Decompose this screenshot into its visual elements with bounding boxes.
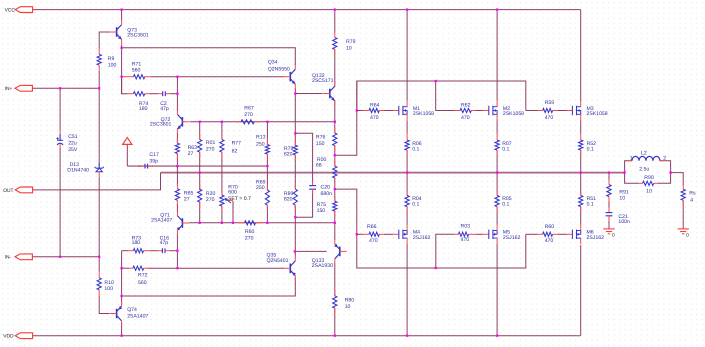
wire power arrow stem <box>126 144 128 166</box>
svg-text:R77: R77 <box>232 140 242 146</box>
wire R51 to M6 drain <box>580 207 582 225</box>
wire feedback line <box>127 165 267 167</box>
wire C16 row corner <box>122 250 129 252</box>
junction at (407.1,9.6) <box>406 8 408 10</box>
junction at (199.7,222.8) <box>199 222 201 224</box>
wire Q72 base row <box>190 121 335 123</box>
svg-text:270: 270 <box>206 197 215 203</box>
svg-text:VCC: VCC <box>5 8 16 14</box>
resistor R73 <box>128 235 150 252</box>
resistor R75 <box>317 196 337 216</box>
junction at (60.1,88.3) <box>59 87 61 89</box>
svg-text:0.1: 0.1 <box>502 202 509 208</box>
svg-text:2SJ162: 2SJ162 <box>413 235 431 241</box>
wire R13 top <box>266 122 268 145</box>
svg-text:SET = 0.7: SET = 0.7 <box>228 196 251 202</box>
junction at (295.3,93.5) <box>294 92 296 94</box>
junction at (334.8,189.1) <box>334 188 336 190</box>
svg-text:R66: R66 <box>367 224 377 230</box>
port IN+ <box>15 85 32 91</box>
wire pot wiper drop <box>232 201 234 223</box>
svg-text:0.1: 0.1 <box>412 202 419 208</box>
capacitor C51 22u 25V <box>57 131 78 153</box>
svg-text:R64: R64 <box>370 102 380 108</box>
svg-text:0.1: 0.1 <box>502 146 509 152</box>
wire VCC to Q73 collector <box>121 10 123 21</box>
svg-text:22u: 22u <box>68 141 77 147</box>
resistor R10 <box>97 272 114 296</box>
junction at (199.7,121.8) <box>199 121 201 123</box>
svg-text:470: 470 <box>461 115 470 121</box>
wire M3 gate link <box>526 110 538 112</box>
junction at (267.4,166.1) <box>266 165 268 167</box>
svg-text:180: 180 <box>132 240 141 246</box>
resistor R51 <box>579 190 597 212</box>
wire R78 to R89 <box>294 155 296 189</box>
port IN- <box>15 254 32 260</box>
wire Q72 emitter to R63 <box>176 133 178 143</box>
svg-text:820: 820 <box>284 151 293 157</box>
svg-text:4: 4 <box>690 198 693 204</box>
junction at (99.2,256.8) <box>98 256 100 258</box>
svg-text:R80: R80 <box>345 297 355 303</box>
wire R01 bottom to OUT rail <box>199 152 201 172</box>
junction at (356.8,234.3) <box>356 233 358 235</box>
wire R59 to M3 gate <box>557 110 567 112</box>
svg-text:2SC3601: 2SC3601 <box>150 122 172 128</box>
wire Q73 emitter node <box>121 44 123 93</box>
junction at (267.4,121.8) <box>266 121 268 123</box>
junction at (334.8,222.8) <box>334 222 336 224</box>
wire Q73 base corner <box>99 32 111 49</box>
svg-text:R59: R59 <box>545 100 555 106</box>
svg-text:2SA1407: 2SA1407 <box>151 218 172 224</box>
wire Q71 base row <box>189 222 334 224</box>
resistor R80 <box>333 291 355 314</box>
ground 0 right <box>678 229 690 237</box>
junction at (334.8,155.2) <box>334 154 336 156</box>
wire Q35 collector to Q133 base <box>295 250 327 252</box>
mosfet M2 2SK1058 <box>483 101 524 121</box>
junction at (295.3,217.2) <box>294 216 296 218</box>
svg-text:2SJ162: 2SJ162 <box>503 235 521 241</box>
wire C21 to ground <box>608 218 610 229</box>
svg-text:Q34: Q34 <box>268 60 278 66</box>
wire R72 left <box>122 267 130 269</box>
wire R91 to C21 <box>608 197 610 211</box>
wire IN+ node to C51 <box>59 88 61 131</box>
potentiometer R70 600 <box>220 184 251 211</box>
junction at (407.1,335.7) <box>406 335 408 337</box>
svg-text:R20: R20 <box>206 191 216 197</box>
wire R79 to Q132 collector <box>334 49 336 86</box>
junction at (267.4,222.8) <box>266 222 268 224</box>
transistor Q74 2SA1407 <box>110 302 149 326</box>
wire R85 to M5 drain <box>496 207 498 225</box>
svg-text:0.1: 0.1 <box>412 146 419 152</box>
wire D13 to IN- node <box>98 177 100 257</box>
svg-text:R63: R63 <box>188 145 198 151</box>
svg-text:0.1: 0.1 <box>587 146 594 152</box>
junction at (295.3,133.3) <box>294 132 296 134</box>
wire Q74 collector <box>121 296 123 305</box>
svg-text:820: 820 <box>284 197 293 203</box>
transistor Q73 2SC3601 <box>110 20 149 44</box>
svg-text:250: 250 <box>256 141 265 147</box>
svg-text:600: 600 <box>228 189 237 195</box>
junction at (121.6,76.7) <box>120 76 122 78</box>
wire OUT rail to R85 <box>496 173 498 196</box>
svg-text:150: 150 <box>317 208 326 214</box>
wire upper drive line <box>335 81 526 155</box>
wire R69 span <box>266 166 268 190</box>
inductor L2 2.5u <box>628 151 666 173</box>
svg-text:470: 470 <box>545 115 554 121</box>
svg-text:C20: C20 <box>321 185 331 191</box>
svg-text:250: 250 <box>256 185 265 191</box>
wire IN+ node to D13 <box>98 88 100 162</box>
svg-text:27: 27 <box>184 196 190 202</box>
port VDD <box>15 333 32 339</box>
svg-text:680n: 680n <box>321 191 333 197</box>
wire OUT rail to R84 <box>406 173 408 196</box>
svg-text:R13: R13 <box>256 135 266 141</box>
wire C20 branch top <box>295 133 312 184</box>
wire C51 to IN- node <box>59 148 61 257</box>
svg-text:2.5u: 2.5u <box>639 166 649 172</box>
svg-text:2SC5171: 2SC5171 <box>312 78 334 84</box>
svg-text:150: 150 <box>316 141 325 147</box>
port VCC <box>15 7 32 13</box>
junction at (177.4,93.7) <box>176 93 178 95</box>
svg-text:270: 270 <box>245 236 254 242</box>
transistor Q34 Q2N5550 <box>268 60 296 89</box>
wire IN+ row <box>33 87 100 89</box>
junction at (497.1,172.6) <box>496 171 498 173</box>
svg-text:2SJ162: 2SJ162 <box>587 235 605 241</box>
resistor R79 <box>333 32 356 54</box>
svg-text:R01: R01 <box>206 140 216 146</box>
wire R65 to Q71 collector <box>176 204 178 212</box>
wire R93 to M5 gate <box>476 233 483 235</box>
svg-text:2SK1058: 2SK1058 <box>503 111 524 117</box>
junction at (177.4,250.7) <box>176 250 178 252</box>
wire VDD rail right rise from M6 source <box>580 245 582 336</box>
wire R90 left jog <box>625 173 639 184</box>
wire Q74 emitter to VDD <box>121 322 123 335</box>
resistor R63 <box>175 138 197 159</box>
junction at (177.4,76.7) <box>176 76 178 78</box>
svg-text:270: 270 <box>206 146 215 152</box>
resistor R00 68 <box>316 157 337 183</box>
transistor Q72 2SC3601 <box>150 110 190 134</box>
svg-text:2SA1930: 2SA1930 <box>312 263 333 269</box>
junction at (624.6,172.6) <box>623 171 625 173</box>
wire pot bottom <box>221 206 223 223</box>
svg-text:62: 62 <box>232 149 238 155</box>
wire R69 bottom <box>266 205 268 223</box>
svg-text:470: 470 <box>370 115 379 121</box>
svg-text:2SC3601: 2SC3601 <box>127 33 149 39</box>
svg-text:IN-: IN- <box>5 255 12 261</box>
svg-text:0.1: 0.1 <box>587 202 594 208</box>
svg-text:0: 0 <box>686 232 689 237</box>
junction at (497.1,9.6) <box>496 8 498 10</box>
wire R13 bottom <box>266 154 268 166</box>
svg-text:0: 0 <box>612 232 615 237</box>
resistor R04 <box>405 190 422 212</box>
wire VDD rail <box>33 335 581 337</box>
wire R62 to M2 gate <box>476 110 483 112</box>
wire IN- node to R10 <box>98 257 100 272</box>
wire Q34 emitter node <box>294 88 296 145</box>
wire L2 right jog <box>660 161 671 173</box>
svg-text:560: 560 <box>132 67 141 73</box>
transistor Q35 Q2N5401 <box>267 252 296 280</box>
resistor R01 <box>198 134 216 157</box>
wire R90 right jog <box>658 173 671 184</box>
wire R77 to pot <box>221 152 223 195</box>
svg-text:OUT: OUT <box>3 188 13 194</box>
wire lower drive M5 tap <box>436 234 455 268</box>
wire Q35 emitter drop <box>122 278 296 297</box>
junction at (334.8,121.8) <box>334 121 336 123</box>
resistor R90 <box>639 175 658 194</box>
wire Q73 emitter to Q34 collector <box>122 48 296 66</box>
wire M3 source to R52 <box>580 120 582 134</box>
power arrow <box>123 138 132 145</box>
resistor R03 <box>455 224 476 244</box>
svg-text:R76: R76 <box>316 135 326 141</box>
mosfet M6 2SJ162 <box>567 225 604 245</box>
svg-text:R79: R79 <box>346 39 356 45</box>
resistor R65 <box>175 184 193 206</box>
wire R75 to Q71 row <box>334 211 336 223</box>
svg-text:R10: R10 <box>104 280 114 286</box>
wire Q34 emitter to Q132 base <box>295 93 322 95</box>
svg-text:2SK1058: 2SK1058 <box>587 111 608 117</box>
wire OUT port riser <box>33 173 161 190</box>
resistor R91 <box>607 179 629 201</box>
mosfet M1 2SK1058 <box>393 101 434 121</box>
wire OUT rail to R20 <box>199 173 201 190</box>
wire upper drive M1 tap <box>356 81 358 111</box>
wire R68 to lower drive node <box>334 178 336 189</box>
wire VCC rail <box>33 9 581 11</box>
svg-text:68: 68 <box>316 162 322 168</box>
resistor R76 <box>316 128 337 151</box>
resistor R89 <box>284 184 298 211</box>
wire R01 top <box>199 122 201 140</box>
resistor Rs 4 <box>681 184 696 206</box>
svg-text:Q74: Q74 <box>127 307 137 313</box>
junction at (609.0,172.6) <box>608 171 610 173</box>
svg-text:100: 100 <box>104 286 113 292</box>
svg-text:R67: R67 <box>244 105 254 111</box>
wire Q71 emitter to C16 node <box>176 235 178 251</box>
svg-text:R60: R60 <box>245 229 255 235</box>
svg-text:R60: R60 <box>545 224 555 230</box>
junction at (356.8,110.5) <box>356 109 358 111</box>
svg-text:470: 470 <box>369 238 378 244</box>
wire C20 branch bottom <box>295 191 312 217</box>
resistor R20 <box>198 184 216 208</box>
svg-text:10: 10 <box>346 45 352 51</box>
junction at (121.6,268.2) <box>120 267 122 269</box>
junction at (177.4,268.2) <box>176 267 178 269</box>
resistor R9 <box>97 49 116 71</box>
junction at (334.8,9.6) <box>334 8 336 10</box>
junction at (221.9,222.8) <box>221 222 223 224</box>
wire C16 to x177 <box>170 250 177 252</box>
diode D13 D1N4740 <box>67 162 104 177</box>
resistor R13 <box>256 135 270 160</box>
wire lower node to R75 <box>334 189 336 201</box>
svg-text:27: 27 <box>188 151 194 157</box>
junction at (221.9,121.8) <box>221 121 223 123</box>
svg-text:47p: 47p <box>160 106 169 112</box>
junction at (121.6,296.0) <box>120 295 122 297</box>
wire OUT rail to R91 <box>608 173 610 185</box>
wire R64 to M1 gate <box>384 110 393 112</box>
wire OUT rail to R51 <box>580 173 582 196</box>
resistor R78 <box>284 140 298 160</box>
wire R60 to M6 gate <box>557 233 567 235</box>
junction at (121.6,335.7) <box>120 335 122 337</box>
transistor Q133 2SA1930 <box>312 239 347 269</box>
wire Q132 emitter to node <box>334 100 336 122</box>
ground 0 left <box>603 229 615 237</box>
wire R72 row <box>148 267 285 269</box>
capacitor C20 <box>309 181 332 197</box>
svg-text:10: 10 <box>619 195 625 201</box>
svg-text:IN+: IN+ <box>5 86 13 92</box>
junction at (233.0,222.8) <box>232 222 234 224</box>
svg-text:R90: R90 <box>644 175 654 181</box>
resistor R69 <box>256 180 270 211</box>
resistor R05 <box>495 190 512 212</box>
svg-text:R62: R62 <box>461 102 471 108</box>
wire R77 top <box>221 122 223 140</box>
svg-text:2SA1407: 2SA1407 <box>127 313 148 319</box>
resistor R60 gate <box>537 224 557 244</box>
svg-text:1: 1 <box>630 156 633 162</box>
svg-text:180: 180 <box>139 106 148 112</box>
svg-text:100n: 100n <box>618 219 630 225</box>
wire M1 gate link <box>357 110 364 112</box>
wire drive node to R68 <box>334 155 336 166</box>
wire OUT rail <box>161 172 625 174</box>
junction at (334.8,335.7) <box>334 335 336 337</box>
wire x177 column top <box>176 77 178 111</box>
svg-text:L2: L2 <box>641 151 647 157</box>
wire VCC rail right drop to M3 drain <box>580 10 582 101</box>
wire R84 to M4 drain <box>406 207 408 225</box>
svg-text:47p: 47p <box>160 240 169 246</box>
wire R52 to OUT rail <box>580 150 582 173</box>
wire node to R76 <box>334 122 336 133</box>
wire row to Q133 emitter <box>334 223 336 240</box>
wire R9 to IN+ node <box>98 71 100 89</box>
junction at (177.4,166.1) <box>176 165 178 167</box>
svg-text:10: 10 <box>345 304 351 310</box>
wire Q74 column upper <box>121 251 123 296</box>
wire R79 top <box>334 10 336 33</box>
resistor R06 <box>405 134 422 156</box>
svg-text:39p: 39p <box>149 158 158 164</box>
wire M6 gate link <box>526 233 538 235</box>
wire R66 to M4 gate <box>384 233 393 235</box>
wire VCC to M1 drain <box>406 10 408 101</box>
transistor Q132 2SC5171 <box>312 73 335 106</box>
wire M5 source to VDD <box>496 244 498 336</box>
wire R89 to Q35 collector <box>294 205 296 256</box>
wire fb node to R65 <box>176 166 178 185</box>
resistor R77 <box>220 134 241 157</box>
port OUT <box>15 187 32 193</box>
wire upper drive M2 tap <box>436 81 455 111</box>
wire lower drive line <box>335 189 526 268</box>
mosfet M3 2SK1058 <box>567 101 608 121</box>
mosfet M4 2SJ162 <box>393 225 430 245</box>
junction at (670.6,172.6) <box>669 171 671 173</box>
wire R20 to Q71 base row <box>199 202 201 223</box>
capacitor C17 <box>138 152 159 168</box>
resistor R66 <box>364 224 384 244</box>
resistor R60 bias <box>238 221 262 242</box>
svg-text:470: 470 <box>545 238 554 244</box>
svg-text:D1N4740: D1N4740 <box>67 167 89 173</box>
svg-text:Q2N5401: Q2N5401 <box>267 258 289 264</box>
wire C16 node to R72 node <box>176 251 178 269</box>
junction at (407.1,172.6) <box>406 171 408 173</box>
junction at (435.8,268.0) <box>435 267 437 269</box>
resistor R72 <box>129 266 149 286</box>
svg-text:C51: C51 <box>68 134 78 140</box>
wire R71 row right <box>150 76 284 78</box>
junction at (580.7,172.6) <box>580 171 582 173</box>
svg-text:C17: C17 <box>149 152 159 158</box>
resistor R67 <box>236 105 260 124</box>
wire R80 to VDD <box>334 308 336 336</box>
wire M4 source to VDD <box>406 244 408 336</box>
wire Rs to ground <box>682 200 684 229</box>
junction at (294.8,251.4) <box>294 250 296 252</box>
junction at (497.1,335.7) <box>496 335 498 337</box>
resistor R52 <box>579 134 597 156</box>
wire OUT to Rs <box>671 173 684 185</box>
svg-text:2SK1058: 2SK1058 <box>413 111 434 117</box>
wire R87 to OUT rail <box>496 150 498 173</box>
svg-text:100: 100 <box>108 63 117 69</box>
wire M1 source to R86 <box>406 120 408 134</box>
capacitor C16 <box>150 235 170 253</box>
resistor R59 <box>537 100 557 121</box>
svg-text:VDD: VDD <box>3 334 14 340</box>
svg-text:10: 10 <box>646 188 652 194</box>
resistor R62 <box>455 102 476 121</box>
resistor R64 <box>364 102 384 121</box>
svg-text:R9: R9 <box>108 56 115 62</box>
resistor R74 <box>128 92 150 112</box>
junction at (121.6,9.6) <box>120 8 122 10</box>
junction at (199.7,172.6) <box>199 171 201 173</box>
svg-text:Q2N5550: Q2N5550 <box>268 66 290 72</box>
wire R86 to OUT rail <box>406 150 408 173</box>
wire lower drive M4 tap <box>357 233 364 235</box>
capacitor C2 <box>150 91 177 112</box>
svg-text:R72: R72 <box>138 273 148 279</box>
